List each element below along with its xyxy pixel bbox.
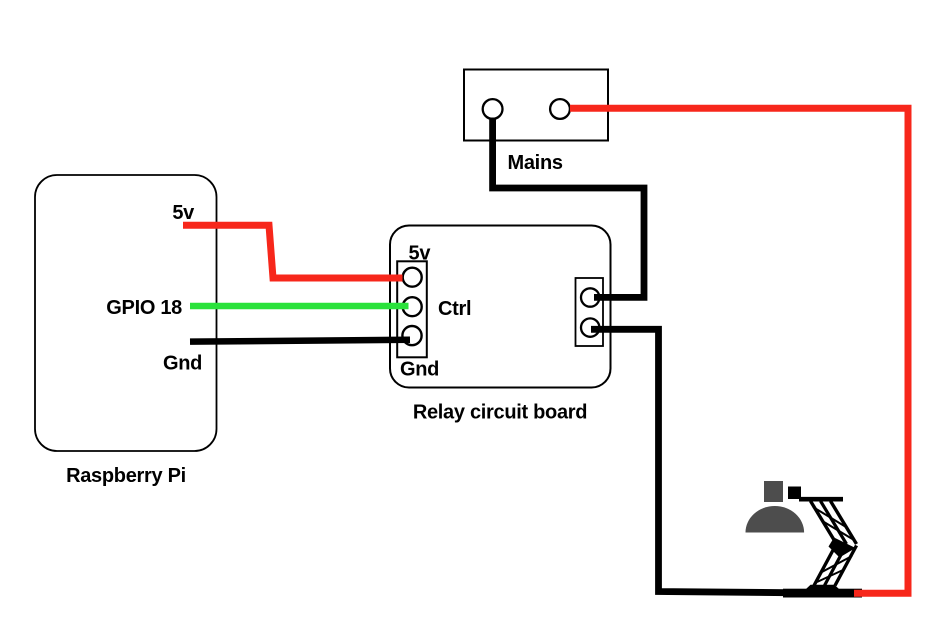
left pin header [397,261,427,357]
svg-text:Gnd: Gnd [400,359,439,381]
wire black relay to lamp [591,329,800,593]
lamp arm upper lattice band [811,501,837,544]
svg-text:Relay circuit board: Relay circuit board [413,402,587,424]
svg-text:Mains: Mains [508,152,563,174]
lamp shade dome gray [746,506,805,532]
svg-text:Gnd: Gnd [163,353,202,375]
wire black mains to relay [493,118,644,298]
mains left terminal circle [483,99,503,119]
wire red mains to lamp (live) [570,108,908,593]
wire Gnd black (Pi to relay) [190,340,410,342]
lamp neck gray rectangle [764,481,783,502]
lamp base slab [783,589,862,598]
wire 5v red (Pi to relay) [183,225,403,278]
relay output pin bottom circle [581,318,599,336]
mains right terminal circle [550,99,570,119]
pin Gnd circle [402,326,421,345]
lamp base bump [806,585,839,589]
svg-text:GPIO 18: GPIO 18 [106,297,182,319]
wire GPIO 18 green (Pi to relay Ctrl) [190,303,409,309]
pin Ctrl circle [403,297,422,316]
pin 5v circle [403,268,422,287]
Mains box [464,70,608,141]
lamp black hinge block [788,487,801,500]
lamp top bar [799,497,843,502]
svg-text:Ctrl: Ctrl [438,298,471,320]
svg-text:5v: 5v [409,243,432,265]
lamp arm lower lattice band [814,546,836,586]
lamp arm elbow [829,538,856,558]
right pin header [576,278,604,346]
svg-text:Raspberry Pi: Raspberry Pi [66,465,186,487]
Relay circuit board [390,226,611,388]
relay output pin top circle [581,288,599,306]
Raspberry Pi board [35,175,217,451]
svg-text:5v: 5v [172,202,195,224]
